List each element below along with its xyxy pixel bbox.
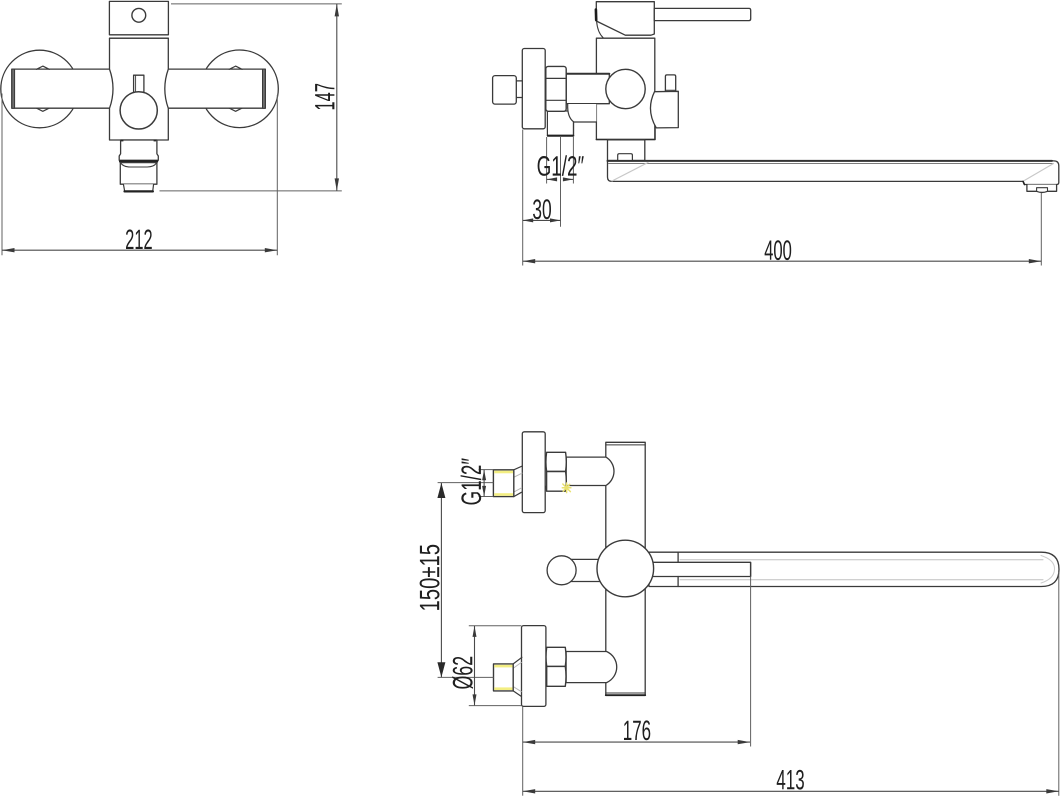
body bar — [606, 442, 645, 695]
arrowheads: dim G1/2 side — [547, 177, 558, 181]
upper wall flange plan — [522, 432, 545, 513]
aerator body — [120, 163, 157, 185]
dim 400 ext right — [1040, 193, 1042, 266]
dim 212 text — [126, 229, 152, 249]
dim 147 line — [336, 4, 338, 191]
dim 30 ext left (wall face) — [522, 130, 524, 266]
arrowheads: dim 30 — [523, 218, 534, 222]
arrowheads: dim 413 — [523, 789, 536, 793]
connector notch — [618, 154, 633, 161]
outlet top nubs — [121, 140, 124, 142]
spout bottom step — [1023, 181, 1024, 184]
arrowheads: dim G1/2 plan — [482, 470, 486, 481]
dim 212 line — [2, 249, 277, 251]
body slab — [596, 38, 654, 139]
dim 30 text — [533, 199, 551, 219]
arrowheads: dim 150pm15 — [437, 483, 445, 498]
G1/2 dim arrows — [547, 178, 551, 180]
chevron mark right top — [229, 66, 242, 69]
upper hex nut plan — [546, 452, 566, 491]
screw hole circle on cap — [132, 8, 146, 22]
pipe top thick edge — [566, 73, 609, 75]
dim 212 extension left — [1, 94, 3, 256]
right wall flange circle — [201, 50, 279, 128]
dim 150±15 line — [440, 483, 442, 677]
bar bottom cap line — [606, 692, 645, 694]
tip aerator tab — [1037, 188, 1048, 192]
arrowheads: dim 147 — [335, 4, 339, 17]
outlet centerline ext — [560, 137, 562, 227]
G1/2 ext line right — [572, 137, 574, 184]
G1/2 ext top — [479, 469, 494, 471]
upper G1/2 square — [493, 470, 513, 497]
wall stub — [493, 76, 517, 105]
dim 147 extension bottom — [160, 190, 342, 192]
arrowheads: dim O62 — [473, 626, 477, 637]
cap bottom-left arc — [597, 22, 604, 38]
left wall flange circle — [1, 50, 79, 128]
lever stub — [134, 75, 144, 92]
top cap rectangle — [109, 1, 168, 34]
shower outlet block — [119, 140, 158, 160]
chevron mark left bottom — [36, 108, 49, 111]
ring dark bottom edge — [125, 190, 153, 192]
dim 176 line — [523, 741, 750, 743]
wall stub neck — [516, 81, 522, 98]
G1/2 ext line left — [546, 137, 548, 184]
dim 176 text — [624, 720, 650, 740]
diverter block — [650, 91, 678, 128]
upper eccentric cone — [514, 466, 523, 497]
dim 413 line — [523, 790, 1059, 792]
lever small circle plan — [547, 556, 576, 585]
dim 150±15 text — [420, 545, 440, 610]
body bottom edge — [596, 139, 654, 141]
Ø62 dim line — [474, 626, 476, 706]
dim 400 line — [523, 260, 1042, 262]
aerator dark top band — [120, 160, 157, 163]
arrowheads: dim 176 — [523, 740, 536, 744]
spout inner section — [652, 562, 751, 576]
dim 413 right ext — [1058, 572, 1060, 796]
handle knob circle — [120, 92, 157, 129]
dim 30 line — [523, 219, 561, 221]
hex nut side view — [546, 66, 566, 111]
spout faint highlights — [680, 559, 1043, 561]
G1/2 rotated text — [461, 458, 482, 504]
G1/2 ext bottom — [479, 496, 494, 498]
spout top thick edge — [608, 160, 1053, 162]
Ø62 text — [452, 657, 473, 689]
lever stem plan — [571, 558, 601, 560]
arrowheads: dim 400 — [523, 259, 536, 263]
crossbar body — [12, 69, 265, 108]
cap left edge shadow — [595, 10, 598, 21]
G1/2 text — [538, 155, 584, 176]
crossbar right end cap — [263, 69, 266, 108]
tip aerator — [1027, 185, 1057, 193]
upper centerline — [438, 482, 494, 484]
dim 400 text — [765, 240, 792, 260]
lever cap — [596, 2, 654, 36]
wall flange side view — [522, 49, 545, 129]
Ø62 ext bottom — [469, 705, 522, 707]
yellow tick at upper nut — [562, 483, 571, 493]
spout highlight diagonals — [612, 163, 648, 182]
lower wall flange plan — [522, 626, 546, 707]
dim 147 extension top — [171, 3, 342, 5]
dim 176 right ext — [750, 562, 752, 576]
bar top cap line — [606, 444, 645, 446]
lower G1/2 square — [494, 664, 514, 691]
lower hex nut plan — [546, 647, 566, 686]
mixer body column with waist fillets — [110, 38, 169, 140]
chevron mark left top — [36, 66, 49, 69]
left wall ext line — [522, 707, 524, 796]
lower union connector — [566, 652, 617, 683]
shower outlet below nut — [547, 111, 573, 136]
lower eccentric cone — [513, 657, 522, 696]
dim 147 text — [315, 84, 334, 109]
Ø62 ext top — [469, 625, 522, 627]
cartridge big circle plan — [597, 540, 654, 597]
lower centerline — [438, 676, 494, 678]
long spout tube — [608, 161, 1059, 185]
cartridge circle — [606, 69, 645, 108]
dim 212 extension right — [276, 95, 278, 255]
upper union connector — [566, 457, 614, 485]
wall pipe cylinder — [566, 74, 609, 104]
spout inner line — [609, 163, 1054, 165]
aerator dome shoulders — [121, 163, 156, 167]
dim 413 text — [777, 770, 804, 790]
lever handle bar — [654, 8, 750, 20]
aerator bottom ring — [123, 184, 153, 191]
G1/2 dim line vertical — [483, 470, 485, 497]
collar band line — [110, 37, 169, 39]
arrowheads: dim 212 — [2, 248, 15, 252]
chevron mark right bottom — [229, 108, 242, 111]
spout connector block — [608, 140, 645, 161]
crossbar left end cap — [12, 69, 15, 108]
diverter knob stub — [665, 75, 675, 92]
spout band plan — [649, 552, 1059, 586]
